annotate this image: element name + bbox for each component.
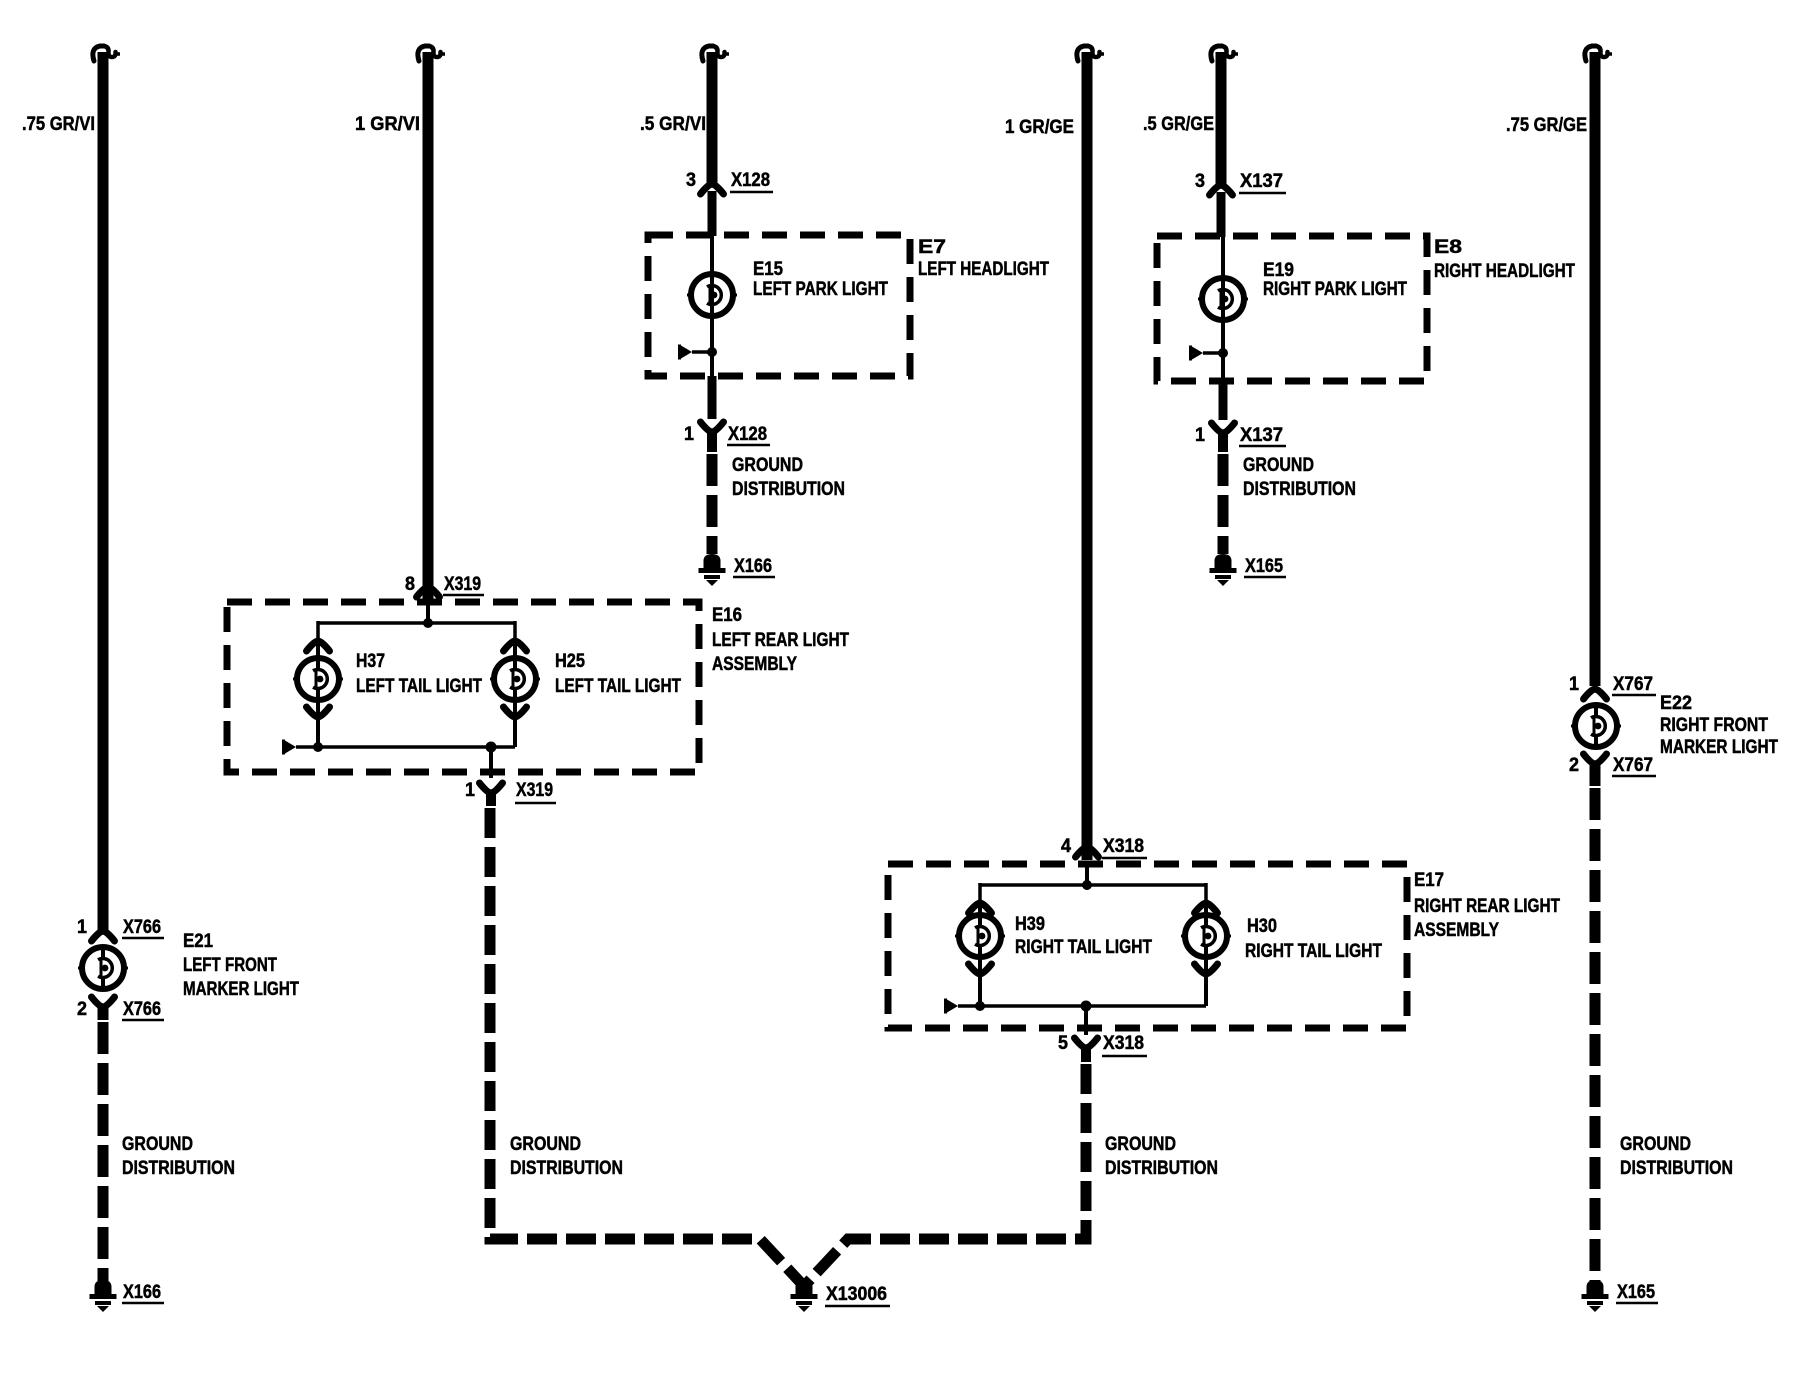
svg-text:X128: X128 <box>728 424 767 445</box>
label E15 LEFT PARK LIGHT <box>753 259 888 300</box>
connector X766 pin 1 <box>77 917 164 941</box>
label E22 RIGHT FRONT MARKER LIGHT <box>1660 693 1778 758</box>
svg-text:X767: X767 <box>1613 755 1653 776</box>
svg-text:1: 1 <box>684 424 694 445</box>
svg-text:.75 GR/VI: .75 GR/VI <box>22 114 95 135</box>
wire E16 top bus <box>318 621 515 640</box>
svg-text:E19: E19 <box>1263 260 1294 281</box>
ground X165 center <box>1210 554 1287 586</box>
svg-text:RIGHT REAR LIGHT: RIGHT REAR LIGHT <box>1414 896 1560 917</box>
label E16 LEFT REAR LIGHT ASSEMBLY <box>712 605 849 675</box>
svg-text:X137: X137 <box>1240 425 1283 446</box>
svg-text:GROUND: GROUND <box>1620 1134 1691 1155</box>
wire E16 entry <box>426 602 430 623</box>
wire top continuation arrow <box>702 46 729 61</box>
lamp E22 <box>1571 705 1621 747</box>
node H39 bottom junction <box>975 1001 985 1011</box>
label E19 RIGHT PARK LIGHT <box>1263 260 1407 300</box>
terminal E17 internal ground <box>944 999 980 1014</box>
lamp H39 <box>955 915 1005 957</box>
svg-text:E22: E22 <box>1660 693 1692 714</box>
wire top continuation arrow <box>93 46 120 61</box>
svg-text:X166: X166 <box>734 556 772 577</box>
svg-text:.5 GR/VI: .5 GR/VI <box>640 114 706 135</box>
lamp E15 <box>687 274 737 316</box>
node E7 ground junction <box>707 347 717 357</box>
wire ground lead left dashed <box>98 1022 109 1281</box>
wire top continuation arrow <box>1211 46 1238 61</box>
wire top continuation arrow <box>1585 46 1612 61</box>
wire E17 bottom bus <box>980 1004 1206 1008</box>
svg-text:DISTRIBUTION: DISTRIBUTION <box>1620 1158 1733 1179</box>
svg-text:RIGHT HEADLIGHT: RIGHT HEADLIGHT <box>1434 261 1575 282</box>
wire 1 GR/GE feed <box>1082 52 1093 860</box>
svg-text:MARKER LIGHT: MARKER LIGHT <box>1660 737 1778 758</box>
label ground distribution center-left <box>510 1134 623 1179</box>
svg-text:DISTRIBUTION: DISTRIBUTION <box>732 479 845 500</box>
connector lamp H25 top <box>504 641 527 651</box>
svg-text:DISTRIBUTION: DISTRIBUTION <box>510 1158 623 1179</box>
wire ground lead E8 dashed <box>1218 454 1229 554</box>
component box E16 <box>227 602 699 772</box>
svg-text:X128: X128 <box>731 170 770 191</box>
svg-text:E17: E17 <box>1414 870 1444 891</box>
svg-text:.5 GR/GE: .5 GR/GE <box>1143 114 1214 135</box>
svg-text:RIGHT PARK LIGHT: RIGHT PARK LIGHT <box>1263 279 1407 300</box>
connector lamp H37 bottom <box>307 707 330 717</box>
wire E8 exit stub <box>1218 432 1228 452</box>
wire top continuation arrow <box>1077 46 1104 61</box>
wire ground lead E16 dashed <box>490 808 801 1283</box>
wire H30 stem top <box>1204 902 1208 916</box>
svg-text:X165: X165 <box>1245 556 1283 577</box>
svg-text:X767: X767 <box>1613 674 1653 695</box>
svg-text:X319: X319 <box>444 574 481 595</box>
connector lamp H25 bottom <box>504 707 527 717</box>
node H37 bottom junction <box>313 742 323 752</box>
connector lamp H30 bottom <box>1195 964 1218 974</box>
lamp E21 <box>78 947 128 989</box>
wire H25 stem top <box>513 640 517 659</box>
wire H39 stem top <box>978 902 982 916</box>
wire E7 exit stub <box>707 431 717 452</box>
wire E16 exit stub <box>486 792 496 806</box>
wire ground lead E17 dashed <box>807 1064 1086 1283</box>
label ground distribution E8 <box>1243 455 1356 500</box>
label H39 RIGHT TAIL LIGHT <box>1015 914 1152 958</box>
connector X766 pin 2 <box>77 997 164 1020</box>
svg-text:1 GR/GE: 1 GR/GE <box>1005 117 1074 138</box>
svg-text:DISTRIBUTION: DISTRIBUTION <box>1105 1158 1218 1179</box>
ground X165 right <box>1582 1280 1659 1312</box>
wire E8 exit <box>1219 381 1228 420</box>
wire E17 top bus <box>980 883 1206 902</box>
svg-text:LEFT TAIL LIGHT: LEFT TAIL LIGHT <box>356 676 482 697</box>
svg-text:MARKER LIGHT: MARKER LIGHT <box>183 979 299 1000</box>
component box E7 <box>648 235 910 376</box>
svg-text:1: 1 <box>1569 674 1579 695</box>
wire .5 GR/GE label <box>1143 114 1214 135</box>
wire 1 GR/VI label <box>355 114 420 135</box>
wire E8 internal <box>1221 236 1225 381</box>
wire .5 GR/VI label <box>640 114 706 135</box>
svg-text:LEFT HEADLIGHT: LEFT HEADLIGHT <box>918 259 1049 280</box>
svg-text:X13006: X13006 <box>826 1284 887 1305</box>
connector X767 pin 2 <box>1569 754 1656 776</box>
svg-text:3: 3 <box>1195 171 1205 192</box>
wire X137 to E8 <box>1217 192 1226 237</box>
wire H37 stem top <box>316 640 320 659</box>
wire E16 bottom bus <box>318 745 515 749</box>
wire ground lead right dashed <box>1590 788 1601 1281</box>
svg-text:DISTRIBUTION: DISTRIBUTION <box>122 1158 235 1179</box>
wire .75 GR/GE feed <box>1590 52 1601 686</box>
svg-text:LEFT FRONT: LEFT FRONT <box>183 955 277 976</box>
label E7 LEFT HEADLIGHT <box>918 237 1049 280</box>
svg-text:.75 GR/GE: .75 GR/GE <box>1506 115 1587 136</box>
svg-text:RIGHT FRONT: RIGHT FRONT <box>1660 715 1768 736</box>
svg-text:GROUND: GROUND <box>510 1134 581 1155</box>
connector X128 pin 3 <box>686 170 773 194</box>
svg-text:E8: E8 <box>1434 237 1462 258</box>
wire X128 to E7 <box>708 191 717 236</box>
svg-text:GROUND: GROUND <box>1243 455 1314 476</box>
connector lamp H39 bottom <box>969 964 992 974</box>
wire .5 GR/VI feed <box>707 52 718 184</box>
svg-text:GROUND: GROUND <box>732 455 803 476</box>
wire ground lead left stub <box>98 1005 109 1020</box>
wire top continuation arrow <box>418 46 445 61</box>
wire ground lead right stub <box>1590 763 1601 786</box>
svg-text:X319: X319 <box>516 780 553 801</box>
svg-text:4: 4 <box>1061 836 1071 857</box>
svg-text:ASSEMBLY: ASSEMBLY <box>1414 920 1499 941</box>
label ground distribution center-right <box>1105 1134 1218 1179</box>
ground X13006 <box>791 1280 891 1312</box>
connector X318 pin 5 <box>1058 1033 1147 1056</box>
svg-text:LEFT PARK LIGHT: LEFT PARK LIGHT <box>753 279 888 300</box>
node E17 exit junction <box>1081 1001 1092 1012</box>
svg-text:LEFT REAR LIGHT: LEFT REAR LIGHT <box>712 630 849 651</box>
connector X319 pin 8 <box>405 574 484 597</box>
lamp E19 <box>1198 278 1248 320</box>
svg-text:E21: E21 <box>183 931 213 952</box>
ground X166 left <box>90 1280 165 1312</box>
label H37 LEFT TAIL LIGHT <box>356 651 482 697</box>
connector lamp H39 top <box>969 903 992 913</box>
label H25 LEFT TAIL LIGHT <box>555 651 681 697</box>
connector lamp H37 top <box>307 641 330 651</box>
connector X318 pin 4 <box>1061 836 1147 858</box>
svg-text:X318: X318 <box>1103 836 1144 857</box>
wire .75 GR/GE label <box>1506 115 1587 136</box>
svg-text:LEFT TAIL LIGHT: LEFT TAIL LIGHT <box>555 676 681 697</box>
wire H37 stem bottom <box>316 699 320 747</box>
svg-text:5: 5 <box>1058 1033 1068 1054</box>
svg-text:H37: H37 <box>356 651 385 672</box>
wire 1 GR/GE label <box>1005 117 1074 138</box>
lamp H30 <box>1181 915 1231 957</box>
svg-text:H39: H39 <box>1015 914 1045 935</box>
component box E17 <box>888 864 1407 1028</box>
connector X137 pin 1 <box>1195 423 1286 446</box>
wire E16 exit <box>489 747 493 778</box>
node E16 top junction <box>423 618 433 628</box>
svg-text:X766: X766 <box>123 999 161 1020</box>
label ground distribution right <box>1620 1134 1733 1179</box>
connector X128 pin 1 <box>684 422 770 445</box>
wire H39 stem bottom <box>978 956 982 1006</box>
wire .75 GR/VI label <box>22 114 95 135</box>
connector X137 pin 3 <box>1195 171 1286 195</box>
label E17 RIGHT REAR LIGHT ASSEMBLY <box>1414 870 1560 941</box>
wire E17 exit <box>1084 1006 1088 1035</box>
svg-text:X137: X137 <box>1240 171 1283 192</box>
svg-text:X318: X318 <box>1103 1033 1144 1054</box>
svg-text:H25: H25 <box>555 651 585 672</box>
svg-text:X766: X766 <box>123 917 161 938</box>
svg-text:1: 1 <box>465 780 475 801</box>
svg-text:3: 3 <box>686 170 696 191</box>
node E16 exit junction <box>486 742 497 753</box>
label H30 RIGHT TAIL LIGHT <box>1245 916 1382 962</box>
component box E8 <box>1157 236 1427 381</box>
svg-text:H30: H30 <box>1247 916 1277 937</box>
connector X767 pin 1 <box>1569 674 1656 699</box>
terminal E7 internal ground <box>678 345 712 360</box>
svg-text:2: 2 <box>77 999 87 1020</box>
wire .5 GR/GE feed <box>1216 52 1227 185</box>
ground X166 center <box>699 554 776 586</box>
node E17 top junction <box>1082 880 1092 890</box>
terminal E8 internal ground <box>1189 346 1223 361</box>
svg-text:8: 8 <box>405 574 415 595</box>
svg-text:RIGHT TAIL LIGHT: RIGHT TAIL LIGHT <box>1245 941 1382 962</box>
svg-text:DISTRIBUTION: DISTRIBUTION <box>1243 479 1356 500</box>
label ground distribution E7 <box>732 455 845 500</box>
svg-text:X165: X165 <box>1617 1282 1655 1303</box>
svg-text:ASSEMBLY: ASSEMBLY <box>712 654 797 675</box>
connector lamp H30 top <box>1195 903 1218 913</box>
wire E17 entry <box>1085 864 1089 885</box>
wire ground lead E7 dashed <box>707 454 718 554</box>
lamp H25 <box>490 658 540 700</box>
svg-text:GROUND: GROUND <box>1105 1134 1176 1155</box>
wire .75 GR/VI feed <box>98 52 109 931</box>
terminal E16 internal ground <box>282 740 318 755</box>
svg-text:X166: X166 <box>123 1282 161 1303</box>
svg-text:2: 2 <box>1569 755 1579 776</box>
label E8 RIGHT HEADLIGHT <box>1434 237 1575 282</box>
wire E17 exit stub <box>1081 1047 1091 1062</box>
node E8 ground junction <box>1218 348 1228 358</box>
label ground distribution left <box>122 1134 235 1179</box>
label E21 LEFT FRONT MARKER LIGHT <box>183 931 299 1000</box>
wire 1 GR/VI feed <box>423 52 434 600</box>
wire H30 stem bottom <box>1204 956 1208 1006</box>
svg-text:E16: E16 <box>712 605 742 626</box>
wire E7 internal <box>710 235 714 376</box>
svg-text:1: 1 <box>1195 425 1205 446</box>
svg-text:RIGHT TAIL LIGHT: RIGHT TAIL LIGHT <box>1015 937 1152 958</box>
wire H25 stem bottom <box>513 699 517 747</box>
svg-text:E7: E7 <box>918 237 946 258</box>
lamp H37 <box>293 658 343 700</box>
connector X319 pin 1 <box>465 780 556 803</box>
svg-text:1 GR/VI: 1 GR/VI <box>355 114 420 135</box>
svg-text:E15: E15 <box>753 259 783 280</box>
svg-text:GROUND: GROUND <box>122 1134 193 1155</box>
svg-text:1: 1 <box>77 917 87 938</box>
wire E7 exit <box>708 376 717 419</box>
